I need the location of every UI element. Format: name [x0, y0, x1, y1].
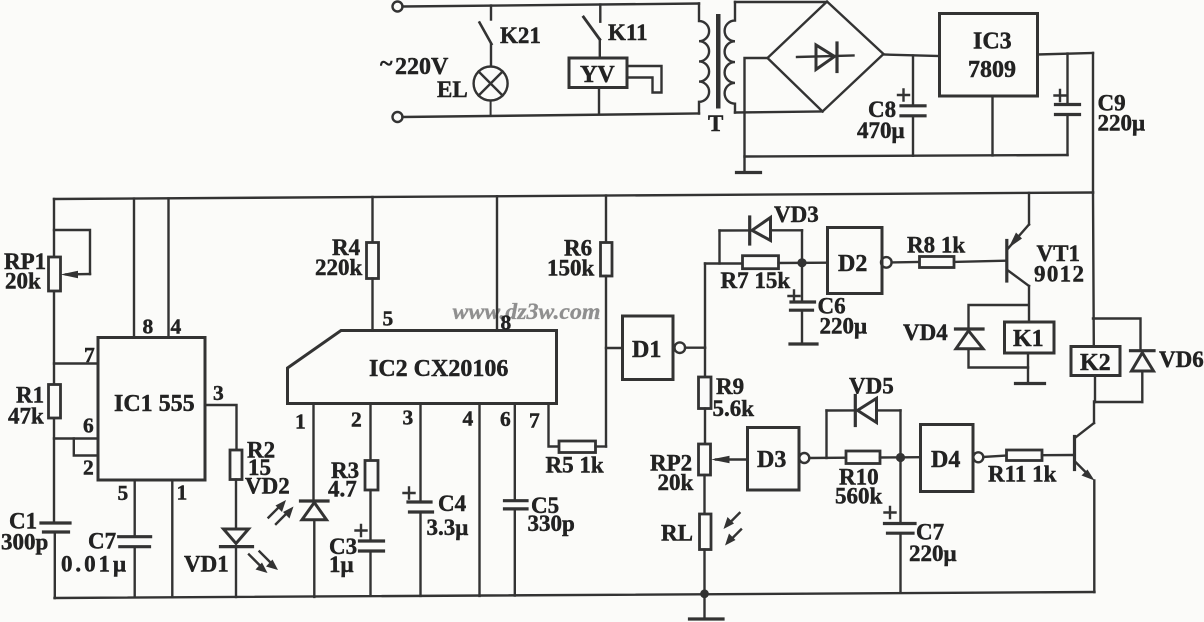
YV plunger: [627, 66, 662, 93]
svg-text:4.7: 4.7: [328, 477, 357, 502]
wire IC2 pin6: [514, 404, 516, 500]
wire D1 out to node: [685, 347, 705, 349]
svg-text:RL: RL: [661, 521, 693, 546]
wire D4 out to R11: [983, 456, 1006, 458]
gate D4: [921, 425, 974, 492]
wire bridge minus to ground: [745, 58, 768, 171]
RP2 wiper arrow: [711, 456, 748, 463]
svg-text:K21: K21: [500, 23, 541, 48]
svg-text:5: 5: [118, 481, 129, 505]
regulator IC3 7809: [940, 14, 1038, 97]
RP1 wiper arm: [54, 230, 90, 278]
photoresistor RL: [700, 514, 712, 550]
svg-text:47k: 47k: [8, 404, 44, 429]
wire IC2 pin2: [369, 404, 371, 461]
svg-text:3: 3: [213, 381, 224, 405]
gate D3: [748, 428, 800, 491]
transistor VT2: [1075, 402, 1095, 593]
wire IC2 pin7: [549, 404, 560, 447]
bridge rectifier: [768, 2, 884, 112]
resistor R9: [699, 377, 712, 409]
svg-text:VD1: VD1: [184, 552, 229, 577]
svg-text:VD6: VD6: [1159, 347, 1204, 372]
diode VD5: [827, 396, 901, 459]
svg-text:1μ: 1μ: [329, 552, 354, 577]
wire K1 to ground: [1027, 353, 1029, 382]
svg-text:7: 7: [529, 409, 540, 433]
svg-text:0.01μ: 0.01μ: [61, 552, 126, 577]
node dot bottom rail: [700, 589, 709, 598]
svg-text:220μ: 220μ: [1098, 111, 1146, 136]
svg-text:IC1 555: IC1 555: [114, 391, 195, 417]
svg-text:20k: 20k: [5, 269, 41, 294]
svg-text:K1: K1: [1013, 326, 1044, 352]
wire IC3 ground pin: [991, 96, 993, 156]
svg-text:7809: 7809: [968, 57, 1016, 83]
ground K1: [1016, 382, 1045, 385]
wire R10 to D4: [880, 456, 921, 459]
svg-text:VD5: VD5: [849, 374, 894, 399]
svg-text:220k: 220k: [315, 255, 363, 280]
svg-text:7: 7: [84, 343, 95, 367]
wire AC bottom rail: [403, 114, 700, 118]
transformer T core: [716, 14, 721, 109]
wire left edge segments: [53, 199, 56, 598]
op-amp IC1 555: [98, 338, 205, 481]
wire main bottom rail: [55, 592, 1095, 598]
svg-text:VD2: VD2: [245, 474, 290, 499]
wire R9 to RP2: [704, 409, 706, 445]
wire RP2 to RL: [703, 475, 705, 514]
wire D2 out to R8: [892, 261, 920, 264]
gate D1: [606, 347, 623, 349]
svg-text:R11 1k: R11 1k: [988, 462, 1057, 487]
transformer T secondary: [725, 2, 735, 113]
svg-text:3.3μ: 3.3μ: [427, 515, 469, 540]
resistor R5: [559, 441, 596, 453]
wire D3 out to R10: [809, 457, 846, 460]
RL receive arrows: [724, 513, 742, 546]
wire IC2 pin1: [312, 404, 314, 500]
wire IC2 pin8: [496, 196, 498, 330]
svg-text:VD4: VD4: [903, 320, 948, 345]
svg-text:1: 1: [295, 410, 306, 434]
svg-text:K2: K2: [1080, 350, 1111, 376]
svg-text:8: 8: [143, 315, 154, 339]
svg-text:9012: 9012: [1034, 262, 1084, 287]
wire IC2 pin3: [419, 404, 421, 501]
svg-text:6: 6: [500, 407, 511, 431]
svg-text:330p: 330p: [528, 511, 575, 536]
diode VD6: [1131, 351, 1155, 402]
resistor R2: [230, 450, 242, 480]
wire V+ right edge: [1092, 193, 1095, 347]
wire power ground rail: [745, 155, 1068, 157]
svg-text:220μ: 220μ: [909, 541, 957, 566]
capacitor C7 220u: [885, 458, 916, 593]
resistor R4: [367, 197, 379, 331]
svg-text:IC2 CX20106: IC2 CX20106: [369, 356, 508, 382]
LED VD1: [221, 529, 253, 597]
capacitor C5: [505, 501, 528, 596]
svg-text:2: 2: [83, 456, 94, 480]
svg-text:R8 1k: R8 1k: [907, 233, 965, 258]
wire V+ drop from IC3: [1092, 53, 1094, 193]
potentiometer RP1: [49, 257, 61, 291]
svg-text:5: 5: [383, 307, 394, 331]
wire node to R9: [704, 348, 706, 377]
VD1 emission arrows: [249, 552, 278, 574]
node dot R7/C6/D2: [797, 258, 806, 267]
resistor R1: [49, 385, 61, 419]
capacitor C3: [356, 525, 384, 596]
wire bridge plus to IC3: [884, 55, 940, 57]
resistor R6: [601, 196, 613, 447]
svg-text:C7: C7: [88, 529, 116, 554]
capacitor C6: [789, 267, 818, 344]
D3 output bubble: [799, 453, 809, 463]
capacitor C1: [41, 523, 70, 532]
svg-text:1: 1: [177, 481, 188, 505]
wire secondary bottom to bridge: [735, 112, 823, 113]
wire IC1 pin3: [205, 405, 237, 450]
ground power section: [737, 171, 761, 174]
terminal J1 top: [393, 2, 403, 12]
wire R7 to D2: [779, 262, 828, 265]
svg-text:4: 4: [463, 407, 474, 431]
potentiometer RP2: [699, 444, 711, 475]
svg-text:8: 8: [501, 311, 512, 335]
svg-text:3: 3: [403, 406, 414, 430]
transformer T primary: [699, 4, 709, 114]
terminal J2 bottom: [393, 112, 403, 122]
D1 output bubble: [675, 342, 686, 353]
svg-text:www.dz3w.com: www.dz3w.com: [453, 299, 601, 324]
wire IC1 pin6: [54, 437, 98, 439]
resistor R3: [365, 461, 378, 491]
svg-text:EL: EL: [437, 77, 468, 102]
wire R5 to R6 node: [596, 445, 607, 447]
capacitor C8: [898, 56, 925, 156]
svg-text:D1: D1: [632, 337, 661, 363]
wire IC2 pin4: [478, 404, 480, 596]
wire main top rail: [54, 193, 1093, 200]
svg-text:VD3: VD3: [774, 202, 819, 227]
wire R8 to VT1 base: [954, 261, 1005, 262]
transistor VT1 9012: [1007, 193, 1029, 322]
svg-text:470μ: 470μ: [857, 118, 905, 143]
svg-text:220μ: 220μ: [820, 314, 868, 339]
relay K1: [1005, 322, 1055, 353]
IC2 CX20106: [288, 331, 557, 404]
svg-text:20k: 20k: [658, 470, 694, 495]
svg-text:R5 1k: R5 1k: [546, 453, 604, 478]
svg-text:YV: YV: [580, 62, 615, 88]
svg-text:2: 2: [351, 408, 362, 432]
wire YV to bottom rail: [598, 88, 600, 114]
wire IC1 pin8: [133, 199, 135, 338]
wire IC1 pin5: [133, 480, 135, 535]
gate D2: [828, 228, 883, 294]
VD2 receive arrows: [269, 500, 294, 524]
lamp EL: [474, 67, 508, 116]
capacitor C4: [404, 488, 433, 596]
wire AC top rail: [403, 4, 700, 7]
svg-text:IC3: IC3: [973, 29, 1012, 55]
diode VD3: [720, 217, 803, 264]
wire IC1 pin2: [74, 439, 98, 456]
wire secondary top to bridge: [735, 1, 827, 3]
wire RL to bottom rail: [703, 550, 705, 595]
switch K21: [480, 6, 492, 67]
svg-text:4: 4: [171, 315, 182, 339]
relay K2: [1071, 347, 1120, 376]
wire K2 bottom branch: [1094, 376, 1142, 403]
diode VD4: [956, 305, 1029, 368]
switch K11: [584, 5, 601, 59]
wire IC1 pin1: [171, 480, 173, 597]
wire IC3 output: [1038, 53, 1094, 55]
svg-text:150k: 150k: [547, 256, 595, 281]
solenoid YV: [569, 58, 627, 88]
resistor R10: [846, 451, 880, 464]
svg-text:300p: 300p: [1, 530, 48, 555]
wire IC1 pin7: [54, 362, 98, 364]
svg-text:T: T: [708, 111, 723, 136]
svg-text:560k: 560k: [835, 484, 883, 509]
svg-text:D4: D4: [931, 447, 960, 473]
svg-text:D3: D3: [757, 447, 786, 473]
wire node up to R7: [704, 264, 706, 348]
svg-text:5.6k: 5.6k: [713, 396, 755, 421]
svg-text:C4: C4: [438, 491, 467, 516]
resistor R11: [1007, 450, 1043, 461]
resistor R8: [920, 257, 955, 268]
svg-text:6: 6: [83, 414, 94, 438]
capacitor C7 0.01u: [119, 537, 151, 598]
wire R11 to VT2 base: [1042, 454, 1073, 457]
wire IC1 pin4: [167, 198, 169, 337]
wire R3 to C3: [369, 490, 371, 539]
photodiode VD2: [301, 501, 329, 597]
D2 output bubble: [881, 257, 892, 268]
resistor R7: [743, 256, 779, 269]
node dot R10/VD5/C7: [896, 453, 905, 462]
svg-text:D2: D2: [838, 251, 867, 277]
ground main: [690, 594, 724, 619]
wire R7 left: [705, 262, 743, 264]
wire K2 top branch to VD6: [1093, 319, 1141, 349]
capacitor C9: [1055, 54, 1080, 156]
D4 output bubble: [973, 452, 983, 462]
svg-text:~: ~: [380, 51, 393, 77]
svg-text:R7 15k: R7 15k: [721, 268, 791, 293]
wire R2 to VD1: [235, 480, 237, 529]
svg-text:K11: K11: [608, 20, 648, 45]
